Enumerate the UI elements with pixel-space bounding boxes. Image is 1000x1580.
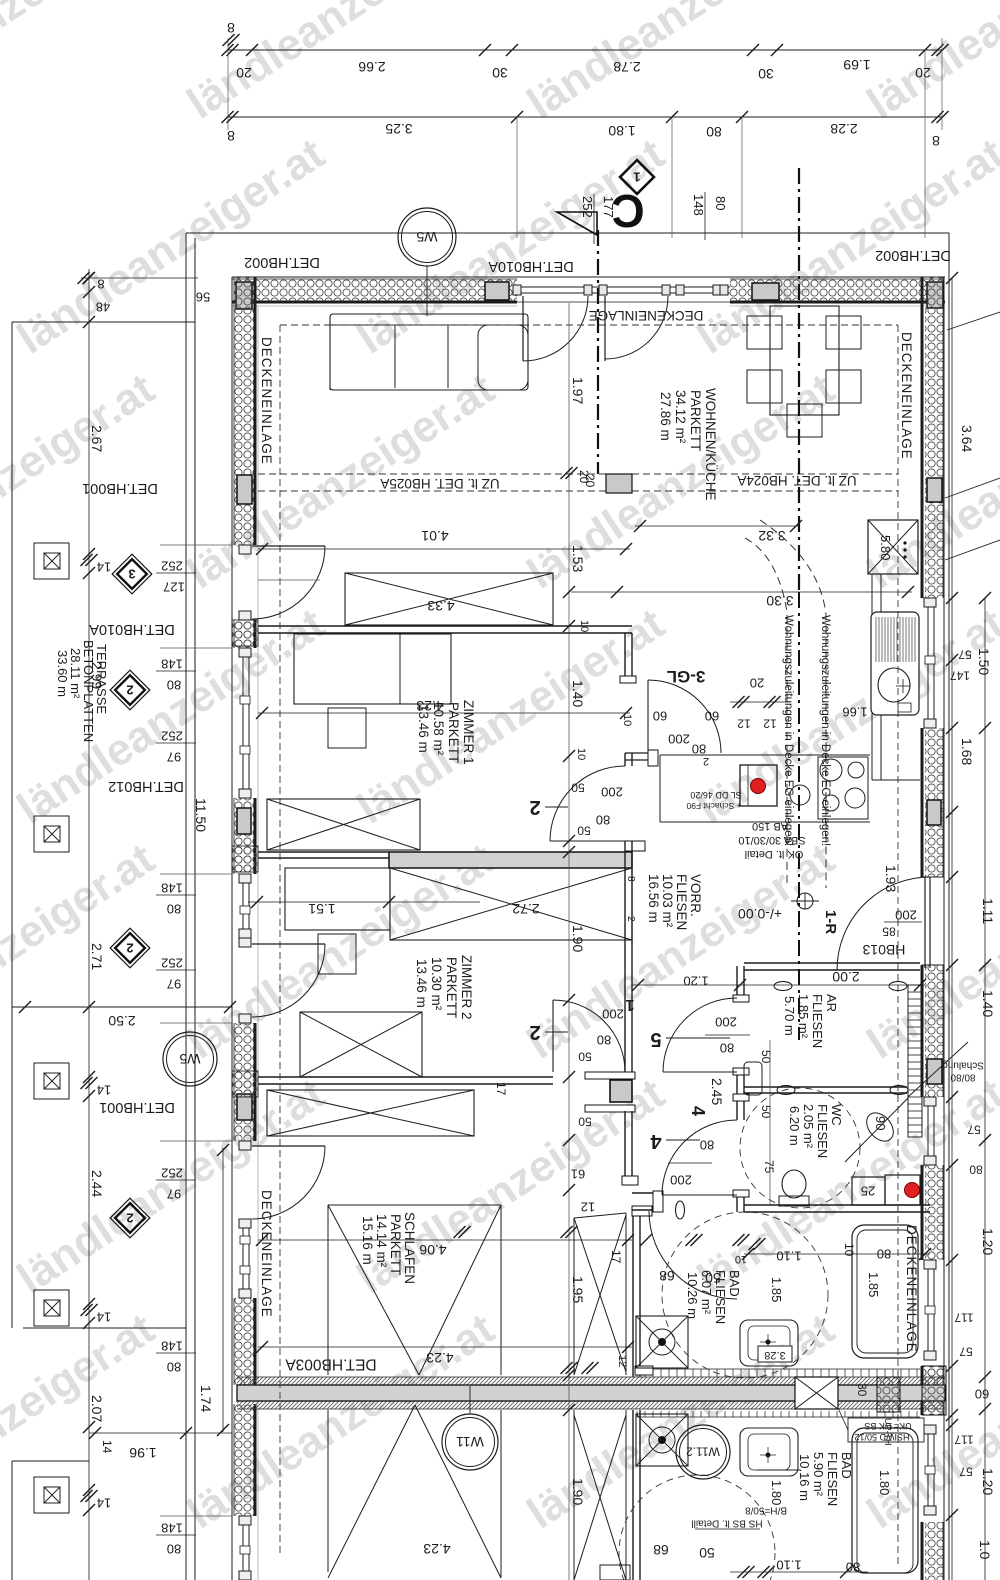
svg-text:SBA 30/30/10: SBA 30/30/10 [738, 834, 805, 846]
svg-text:80/80: 80/80 [950, 1071, 975, 1082]
svg-text:1: 1 [625, 996, 634, 1013]
svg-text:17: 17 [494, 1082, 508, 1096]
folding door 90 [845, 1098, 908, 1162]
svg-text:3.28: 3.28 [764, 1349, 785, 1361]
svg-text:50: 50 [577, 824, 591, 838]
svg-text:20: 20 [915, 65, 931, 81]
svg-text:2.00: 2.00 [832, 969, 859, 985]
wardrobe Zimmer1 [345, 573, 553, 625]
svg-text:3.30: 3.30 [766, 593, 793, 609]
svg-text:DET.HB001: DET.HB001 [99, 1099, 175, 1115]
level marker [797, 893, 813, 909]
svg-text:4: 4 [650, 1130, 662, 1152]
kitchen door swing [647, 680, 649, 753]
svg-text:1.80: 1.80 [769, 1480, 784, 1505]
svg-text:AB 150: AB 150 [752, 820, 788, 832]
svg-text:80: 80 [167, 677, 181, 692]
svg-text:10.58 m²: 10.58 m² [431, 702, 446, 756]
svg-text:5: 5 [650, 1028, 661, 1050]
wardrobe Zimmer2 right [390, 868, 632, 940]
jamb marks 10 [774, 982, 792, 991]
svg-text:UZ lt. DET. HB024A: UZ lt. DET. HB024A [737, 473, 856, 488]
svg-text:97: 97 [167, 1186, 181, 1201]
svg-text:1.85 m²: 1.85 m² [796, 994, 811, 1039]
svg-text:2: 2 [625, 916, 636, 922]
svg-text:30: 30 [758, 66, 774, 82]
svg-text:80: 80 [167, 1541, 181, 1556]
svg-text:1.51: 1.51 [308, 901, 335, 917]
svg-text:FLIESEN: FLIESEN [674, 874, 689, 930]
svg-text:2: 2 [126, 1210, 133, 1225]
svg-text:Wohnungszuleitungen in Decke E: Wohnungszuleitungen in Decke EG einlegen… [782, 615, 794, 846]
svg-text:12: 12 [616, 1355, 628, 1367]
svg-text:252: 252 [161, 1165, 183, 1180]
svg-text:2.28: 2.28 [830, 121, 857, 137]
svg-text:+ Schacht F90: + Schacht F90 [686, 801, 741, 811]
svg-text:10.16 m: 10.16 m [797, 1454, 812, 1501]
door Zimmer1 swing [550, 840, 625, 842]
svg-text:16.56 m: 16.56 m [646, 874, 661, 923]
dining table [770, 306, 839, 415]
svg-text:FLIESEN: FLIESEN [810, 994, 825, 1048]
svg-text:DECKENEINLAGE: DECKENEINLAGE [899, 332, 914, 460]
mirrored unit below beam [328, 1405, 415, 1578]
svg-text:4: 4 [688, 1106, 708, 1116]
top dimension chain A [228, 49, 942, 51]
svg-text:1.85: 1.85 [866, 1272, 881, 1297]
svg-text:50: 50 [571, 781, 585, 795]
Schlafen narrow cabinet X [574, 1213, 626, 1218]
top exterior wall [232, 276, 945, 278]
column at corridor [610, 1080, 632, 1102]
svg-text:2: 2 [126, 940, 133, 955]
svg-text:8: 8 [932, 133, 940, 149]
svg-text:80: 80 [720, 1040, 734, 1055]
W circles [398, 208, 456, 266]
svg-text:4.06: 4.06 [419, 1242, 446, 1258]
left wall terrace door Zimmer2 [239, 938, 251, 947]
svg-text:57: 57 [959, 1465, 973, 1479]
svg-text:200: 200 [895, 907, 917, 922]
svg-text:4.23: 4.23 [423, 1541, 450, 1557]
UZ beam dashed lines [258, 473, 898, 475]
terrace 2.50 line [12, 1006, 232, 1008]
svg-text:8: 8 [227, 20, 235, 36]
column left wall [237, 475, 252, 504]
svg-text:90: 90 [873, 1116, 888, 1130]
svg-text:2.07: 2.07 [89, 1395, 105, 1422]
top dimension chain B [228, 116, 942, 118]
bed Zimmer2 [285, 868, 390, 930]
svg-text:97: 97 [167, 749, 181, 764]
tile edge strips at beam [637, 1368, 920, 1370]
svg-text:4.01: 4.01 [421, 528, 448, 544]
svg-text:UK= UK BS: UK= UK BS [864, 1421, 911, 1431]
svg-text:8: 8 [625, 876, 636, 882]
5.80 shaft box [868, 520, 918, 574]
svg-text:FLIESEN: FLIESEN [815, 1104, 830, 1158]
svg-text:33.60 m: 33.60 m [55, 650, 70, 697]
left exterior wall [231, 277, 233, 1580]
svg-text:2: 2 [703, 755, 709, 767]
svg-text:DET.HB010A: DET.HB010A [488, 258, 574, 274]
roof overhang outline [186, 232, 949, 234]
svg-text:1.40: 1.40 [570, 680, 586, 707]
svg-text:FLIESEN: FLIESEN [825, 1452, 840, 1506]
svg-text:80: 80 [597, 1032, 611, 1047]
svg-text:4.33: 4.33 [427, 598, 454, 614]
svg-text:80: 80 [700, 1137, 714, 1152]
detail diamonds [112, 554, 152, 594]
svg-text:97: 97 [167, 976, 181, 991]
wardrobe Zimmer2 top [267, 799, 420, 850]
svg-text:15.16 m: 15.16 m [360, 1216, 375, 1265]
svg-text:8: 8 [227, 128, 235, 144]
terrace double door leafs and swings [522, 296, 524, 361]
svg-text:2.50: 2.50 [108, 1013, 135, 1029]
door Zimmer2 swing [552, 1000, 554, 1072]
mirrored fixtures below beam [636, 1414, 688, 1466]
Schlafen bed (V-marked) [328, 1204, 501, 1206]
Deckeneinlage dashed zone [279, 325, 281, 1556]
kitchen sink unit [871, 612, 919, 715]
svg-text:80: 80 [167, 1359, 181, 1374]
right margin dim lines [951, 278, 953, 1580]
svg-text:3-GL: 3-GL [667, 667, 706, 686]
svg-text:200: 200 [668, 731, 690, 746]
svg-text:1.80: 1.80 [877, 1470, 892, 1495]
concrete beam across plan [237, 1377, 945, 1385]
left wall window [242, 874, 244, 938]
svg-text:1.66: 1.66 [842, 704, 867, 719]
shaft with red dot 2 [885, 1175, 920, 1205]
svg-text:57: 57 [958, 648, 972, 662]
svg-text:6.07 m²: 6.07 m² [699, 1270, 714, 1315]
svg-text:W5: W5 [416, 229, 437, 245]
chain extension lines [516, 117, 518, 238]
svg-text:25: 25 [861, 1183, 875, 1198]
svg-text:DECKENEINLAGE: DECKENEINLAGE [589, 308, 704, 323]
svg-text:14.14 m²: 14.14 m² [374, 1214, 389, 1268]
svg-text:252: 252 [161, 955, 183, 970]
WC toilet [779, 1196, 809, 1206]
svg-text:BAD: BAD [839, 1452, 854, 1479]
svg-text:6.20 m: 6.20 m [787, 1106, 802, 1146]
svg-text:10: 10 [578, 620, 590, 632]
svg-text:10: 10 [735, 1253, 747, 1265]
left wall window [242, 1219, 244, 1298]
svg-text:10.03 m²: 10.03 m² [660, 874, 675, 928]
dim 3.32 / 3.30 kitchen [635, 525, 800, 527]
svg-text:200: 200 [670, 1172, 692, 1187]
svg-text:50: 50 [578, 1115, 592, 1129]
svg-text:50: 50 [578, 1050, 592, 1064]
section line C [597, 230, 599, 474]
svg-text:DET.HB012: DET.HB012 [108, 778, 184, 794]
svg-text:1.40: 1.40 [980, 990, 996, 1017]
corridor west wall [624, 633, 626, 680]
svg-text:5.80: 5.80 [878, 535, 893, 560]
svg-text:34.12 m²: 34.12 m² [673, 390, 688, 444]
bathtub Bad [852, 1225, 918, 1358]
svg-text:148: 148 [161, 656, 183, 671]
svg-text:3.25: 3.25 [385, 121, 412, 137]
svg-text:2: 2 [529, 796, 540, 818]
svg-text:OK lt. Detail: OK lt. Detail [745, 848, 804, 860]
svg-text:WOHNEN/KÜCHE: WOHNEN/KÜCHE [703, 388, 718, 501]
corridor east wall [736, 966, 738, 998]
svg-text:1.90: 1.90 [570, 925, 586, 952]
svg-text:252: 252 [161, 558, 183, 573]
svg-text:1-R: 1-R [822, 910, 839, 934]
svg-text:1.69: 1.69 [843, 57, 870, 73]
svg-text:14: 14 [97, 559, 111, 574]
svg-text:117: 117 [954, 1433, 973, 1447]
svg-text:1.20: 1.20 [683, 973, 708, 988]
svg-text:13.46 m: 13.46 m [416, 704, 431, 753]
svg-text:DET.HB001: DET.HB001 [82, 480, 158, 496]
svg-text:50: 50 [759, 1050, 773, 1064]
svg-text:60: 60 [705, 708, 719, 723]
svg-text:VORR.: VORR. [688, 874, 703, 917]
svg-text:56: 56 [196, 289, 210, 304]
svg-text:30: 30 [855, 1383, 869, 1397]
svg-text:48: 48 [96, 299, 110, 314]
svg-text:1.93: 1.93 [883, 865, 899, 892]
washbasin Bad [740, 1320, 798, 1366]
1.74 dim line [222, 1148, 224, 1432]
svg-text:127: 127 [163, 579, 185, 594]
svg-text:Wohnungszuleitungen in Decke E: Wohnungszuleitungen in Decke EG einlegen… [819, 615, 831, 846]
svg-text:80: 80 [596, 812, 610, 827]
svg-text:HSIWD 50/12: HSIWD 50/12 [854, 1432, 909, 1442]
svg-text:3.64: 3.64 [959, 425, 975, 452]
turning circles dashed [740, 1088, 860, 1208]
right exterior wall [943, 277, 945, 1580]
svg-text:80: 80 [969, 1163, 983, 1177]
kitchen door stub and jambs [625, 752, 650, 754]
svg-text:20: 20 [750, 675, 764, 690]
svg-text:B/H=50/8: B/H=50/8 [745, 1504, 787, 1515]
svg-text:1.50: 1.50 [976, 648, 992, 675]
shaft with red dot SL DD [740, 765, 777, 806]
svg-text:DET.HB002: DET.HB002 [244, 254, 320, 270]
entrance door HB013 [922, 876, 944, 878]
svg-text:148: 148 [161, 880, 183, 895]
svg-text:200: 200 [602, 1006, 624, 1021]
svg-text:148: 148 [161, 1338, 183, 1353]
svg-text:1.20: 1.20 [980, 1228, 996, 1255]
left wall window [242, 648, 244, 798]
bed Zimmer1 [294, 634, 451, 704]
svg-text:5.70 m: 5.70 m [782, 996, 797, 1036]
svg-text:2.66: 2.66 [358, 59, 385, 75]
svg-text:1.97: 1.97 [570, 377, 586, 404]
svg-text:20: 20 [583, 474, 597, 488]
svg-text:2.45: 2.45 [709, 1078, 725, 1105]
svg-text:12: 12 [763, 717, 777, 731]
svg-text:10.30 m²: 10.30 m² [429, 957, 444, 1011]
svg-text:1.90: 1.90 [570, 1478, 586, 1505]
svg-text:1.0: 1.0 [977, 1540, 993, 1560]
svg-text:12: 12 [737, 717, 751, 731]
svg-text:4.23: 4.23 [426, 1350, 453, 1366]
top wall glazing (terrace doors) [517, 286, 730, 288]
svg-text:W11: W11 [456, 1434, 484, 1450]
svg-text:SL DD 46/20: SL DD 46/20 [690, 790, 741, 800]
sofa [330, 314, 528, 390]
dim 4.23 [258, 712, 630, 714]
AR/WC divider wall [744, 1086, 907, 1088]
svg-text:ZIMMER 2: ZIMMER 2 [459, 955, 474, 1020]
right wall window [927, 598, 929, 728]
svg-text:1.68: 1.68 [959, 738, 975, 765]
svg-text:3: 3 [128, 566, 135, 581]
svg-text:DET.HB010A: DET.HB010A [89, 621, 175, 637]
svg-text:80: 80 [167, 901, 181, 916]
wall C Zimmer2/Schlafen [258, 1076, 553, 1078]
svg-text:10.26 m: 10.26 m [685, 1272, 700, 1319]
leader lines right [947, 312, 1000, 330]
svg-text:14: 14 [100, 1440, 114, 1454]
svg-text:50: 50 [699, 1545, 715, 1561]
svg-text:30: 30 [492, 65, 508, 81]
svg-text:85: 85 [882, 925, 896, 939]
svg-text:148: 148 [161, 1520, 183, 1535]
svg-text:68: 68 [659, 1268, 675, 1284]
svg-text:DECKENEINLAGE: DECKENEINLAGE [904, 1225, 919, 1353]
UK box [848, 1418, 924, 1442]
window extension lines left [160, 544, 232, 546]
svg-text:AR: AR [824, 994, 839, 1012]
svg-text:1.10: 1.10 [776, 1557, 801, 1572]
terrace columns [34, 543, 69, 579]
svg-text:50: 50 [759, 1105, 773, 1119]
svg-text:2: 2 [126, 682, 133, 697]
left wall window [242, 1516, 244, 1580]
svg-text:BAD: BAD [727, 1270, 742, 1297]
svg-text:WC: WC [829, 1104, 844, 1126]
svg-text:DET.HB003A: DET.HB003A [285, 1355, 377, 1372]
svg-text:14: 14 [97, 1082, 111, 1097]
columns in top wall [236, 282, 252, 309]
svg-text:2.05 m²: 2.05 m² [801, 1104, 816, 1149]
svg-text:27.86 m: 27.86 m [658, 392, 673, 441]
wall A Zimmer1/Wohnen [258, 625, 632, 627]
svg-text:20: 20 [236, 65, 252, 81]
svg-text:147: 147 [950, 669, 970, 683]
svg-text:60: 60 [653, 708, 667, 723]
conduit dashed curves [745, 538, 787, 888]
svg-text:60: 60 [975, 1386, 989, 1401]
svg-text:8: 8 [97, 276, 104, 291]
svg-text:1: 1 [633, 169, 640, 184]
svg-text:W5: W5 [179, 1051, 200, 1067]
svg-text:148: 148 [691, 194, 706, 216]
svg-text:Schalung: Schalung [942, 1059, 984, 1070]
svg-text:68: 68 [653, 1542, 669, 1558]
svg-text:UZ lt. DET. HB025A: UZ lt. DET. HB025A [380, 476, 499, 491]
kitchen counter bottom + cooktop [660, 754, 870, 756]
svg-text:2.67: 2.67 [89, 425, 105, 452]
svg-text:PARKETT: PARKETT [444, 957, 459, 1018]
svg-text:PARKETT: PARKETT [688, 390, 703, 451]
svg-text:3.32: 3.32 [758, 528, 785, 544]
WC/Bad wall [744, 1204, 930, 1206]
svg-text:2.44: 2.44 [89, 1170, 105, 1197]
section line B [798, 168, 800, 592]
svg-text:14: 14 [97, 1309, 111, 1324]
svg-text:75: 75 [762, 1160, 776, 1174]
right wall window [927, 1097, 929, 1165]
svg-text:57: 57 [959, 1345, 973, 1359]
svg-text:252: 252 [580, 196, 595, 218]
right wall window [927, 1260, 929, 1360]
svg-text:1.95: 1.95 [570, 1276, 586, 1303]
svg-text:117: 117 [954, 1311, 973, 1325]
svg-text:14: 14 [97, 1495, 111, 1510]
svg-text:2.71: 2.71 [89, 943, 105, 970]
section marker diamond 1 [620, 160, 654, 194]
terrace outline [12, 321, 195, 323]
svg-text:17: 17 [609, 1250, 623, 1264]
svg-text:200: 200 [715, 1014, 737, 1029]
dim 4.06 / 4.23 Schlafen [258, 1239, 632, 1241]
wall B Zimmer1/Zimmer2 [258, 851, 389, 853]
left wall terrace door Zimmer1 [239, 545, 251, 554]
svg-text:12: 12 [581, 1199, 595, 1214]
svg-text:10: 10 [842, 1243, 856, 1257]
right wall window [927, 1425, 929, 1515]
svg-text:PARKETT: PARKETT [388, 1214, 403, 1275]
svg-text:DECKENEINLAGE: DECKENEINLAGE [259, 337, 274, 465]
dim 1.51 [248, 901, 480, 903]
svg-text:W11.2: W11.2 [686, 1445, 720, 1459]
corridor dims [632, 984, 925, 986]
kitchen counter right [871, 574, 873, 780]
W5 circle left [163, 1032, 217, 1086]
AR washbasin [744, 1062, 762, 1095]
svg-text:80: 80 [706, 124, 722, 140]
svg-text:DET.HB002: DET.HB002 [875, 247, 951, 263]
svg-text:10: 10 [621, 714, 633, 726]
svg-text:80: 80 [692, 741, 706, 756]
25 column box [852, 1177, 885, 1205]
svg-text:FLIESEN: FLIESEN [713, 1270, 728, 1324]
svg-text:DECKENEINLAGE: DECKENEINLAGE [259, 1190, 274, 1318]
svg-text:1.11: 1.11 [980, 898, 996, 924]
svg-text:+/-0.00: +/-0.00 [738, 906, 782, 922]
left wall terrace door Schlafen [239, 1141, 251, 1150]
svg-text:252: 252 [161, 728, 183, 743]
AR door swing [663, 1071, 737, 1073]
svg-text:SCHLAFEN: SCHLAFEN [402, 1212, 417, 1284]
svg-text:2: 2 [529, 1021, 540, 1043]
svg-text:HS BS lt. Detaill: HS BS lt. Detaill [691, 1517, 762, 1528]
svg-text:1.96: 1.96 [129, 1445, 156, 1461]
AR north wall [744, 962, 920, 964]
svg-text:10: 10 [575, 748, 587, 760]
svg-text:1.10: 1.10 [776, 1248, 801, 1263]
wardrobe Zimmer2 bottom [300, 1012, 422, 1077]
svg-text:80: 80 [713, 196, 728, 210]
beam end block [877, 1377, 900, 1412]
svg-text:13.46 m: 13.46 m [414, 959, 429, 1008]
svg-text:200: 200 [601, 784, 623, 799]
columns right wall [927, 478, 942, 502]
svg-text:HB013: HB013 [862, 942, 905, 958]
svg-text:PARKETT: PARKETT [446, 702, 461, 763]
